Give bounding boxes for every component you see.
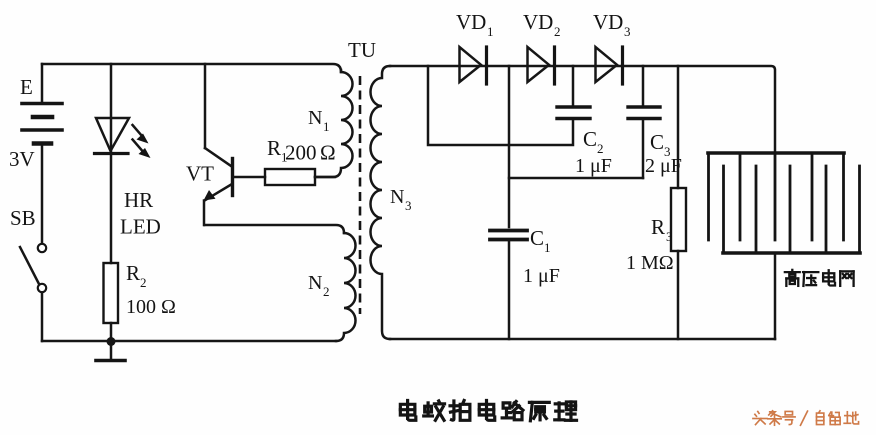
svg-text:2: 2 bbox=[597, 141, 604, 156]
resistor R2 bbox=[104, 263, 119, 341]
svg-text:C: C bbox=[583, 127, 597, 151]
label gao ya dian wang bbox=[785, 270, 854, 286]
resistor R1 bbox=[265, 169, 335, 185]
LED arrow 1 bbox=[133, 125, 149, 144]
svg-text:3: 3 bbox=[405, 198, 412, 213]
wire C3 bottom to node B bbox=[509, 177, 643, 180]
svg-text:LED: LED bbox=[120, 215, 161, 239]
caption dian wen pai dian lu yuan li bbox=[400, 400, 576, 420]
resistor R3 bbox=[671, 66, 686, 339]
wire bottom-right rail bbox=[390, 338, 775, 341]
svg-text:C: C bbox=[530, 226, 544, 250]
wire node B vertical bbox=[508, 66, 511, 227]
wire emitter to N2 bbox=[205, 225, 345, 233]
svg-text:VT: VT bbox=[186, 162, 214, 186]
diode VD1 bbox=[460, 47, 487, 84]
svg-text:2: 2 bbox=[140, 275, 147, 290]
svg-text:HR: HR bbox=[124, 188, 153, 212]
LED HR bbox=[95, 118, 130, 263]
wire top-left rail bbox=[42, 64, 341, 72]
capacitor C3 bbox=[628, 66, 660, 178]
svg-text:TU: TU bbox=[348, 38, 376, 62]
svg-text:SB: SB bbox=[10, 206, 36, 230]
svg-text:3: 3 bbox=[666, 229, 673, 244]
transformer winding N1 bbox=[315, 70, 353, 177]
battery E bbox=[22, 64, 62, 243]
svg-text:E: E bbox=[20, 75, 33, 99]
svg-text:100 Ω: 100 Ω bbox=[126, 296, 176, 318]
svg-text:R: R bbox=[267, 136, 281, 160]
svg-text:N: N bbox=[308, 272, 322, 294]
wire C2 return loop bbox=[428, 66, 573, 145]
LED HR lead top bbox=[110, 64, 113, 152]
svg-text:2: 2 bbox=[554, 24, 561, 39]
wire bottom-left rail bbox=[42, 340, 336, 343]
svg-text:1 μF: 1 μF bbox=[523, 265, 560, 287]
svg-text:1: 1 bbox=[544, 240, 551, 255]
svg-text:R: R bbox=[651, 215, 665, 239]
svg-text:R: R bbox=[126, 261, 140, 285]
diode VD3 bbox=[596, 47, 623, 84]
transformer winding N2 bbox=[336, 233, 356, 341]
svg-text:1: 1 bbox=[323, 119, 330, 134]
switch SB bbox=[20, 244, 46, 341]
svg-text:1 MΩ: 1 MΩ bbox=[626, 252, 674, 274]
svg-text:2 μF: 2 μF bbox=[645, 155, 682, 177]
svg-text:200: 200 bbox=[285, 141, 317, 165]
wire grid to bottom rail bbox=[774, 254, 777, 339]
svg-text:N: N bbox=[308, 107, 322, 129]
diode VD2 bbox=[528, 47, 555, 84]
transformer winding N3 bbox=[371, 66, 391, 339]
svg-text:1 μF: 1 μF bbox=[575, 155, 612, 177]
HV grid bottom electrode bbox=[723, 166, 860, 253]
LED arrow 2 bbox=[133, 140, 151, 159]
transistor VT bbox=[204, 64, 266, 225]
svg-text:2: 2 bbox=[323, 284, 330, 299]
svg-text:N: N bbox=[390, 186, 404, 208]
wire top-right rail bbox=[390, 66, 775, 153]
svg-text:C: C bbox=[650, 130, 664, 154]
svg-text:VD: VD bbox=[593, 10, 623, 34]
svg-text:3: 3 bbox=[624, 24, 631, 39]
svg-text:1: 1 bbox=[487, 24, 494, 39]
svg-text:3V: 3V bbox=[9, 147, 35, 171]
transformer core bbox=[359, 76, 362, 314]
svg-text:Ω: Ω bbox=[320, 141, 336, 165]
junction dot ground node bbox=[107, 337, 116, 346]
watermark toutiaohao ziliudi bbox=[753, 411, 859, 425]
HV grid top electrode bbox=[708, 153, 844, 240]
capacitor C2 bbox=[557, 66, 590, 119]
ground bbox=[96, 341, 125, 361]
svg-text:VD: VD bbox=[456, 10, 486, 34]
capacitor C1 bbox=[490, 231, 527, 340]
svg-text:VD: VD bbox=[523, 10, 553, 34]
